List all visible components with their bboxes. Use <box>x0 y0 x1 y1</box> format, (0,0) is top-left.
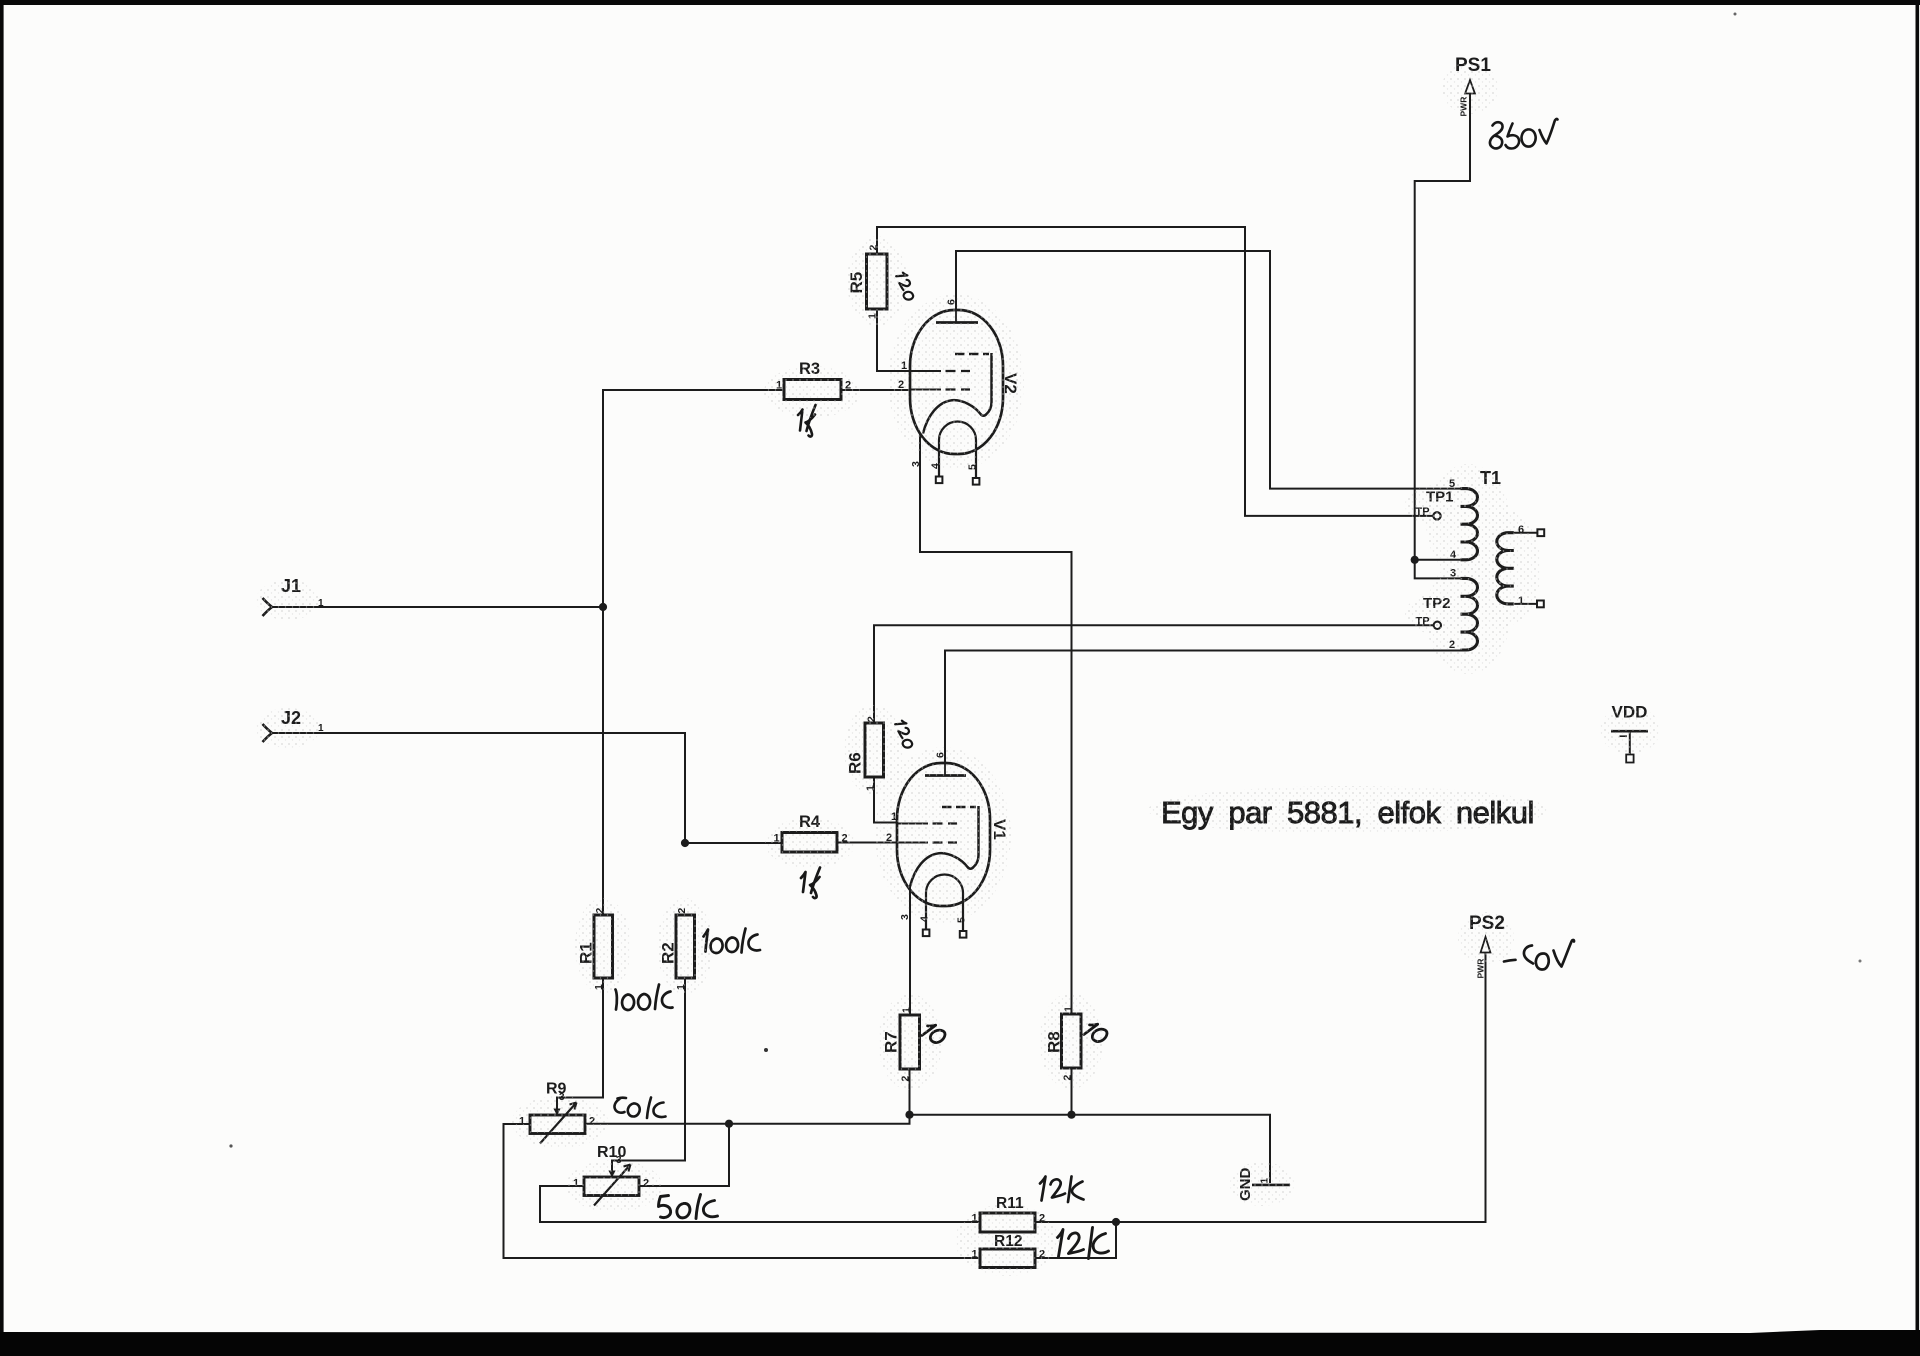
annotation 850V handwritten <box>1490 119 1558 149</box>
wire R2 bottom to R10 wiper <box>612 978 685 1171</box>
wire T1 pin3 <box>1415 560 1461 579</box>
annotation -50V handwritten <box>1504 940 1574 970</box>
junction T1 center tap <box>1411 556 1419 564</box>
junction node A (J1/R1/R3) <box>599 603 607 611</box>
wire J1 to node A <box>272 606 603 608</box>
wire R4 pin2 to V1 grid <box>837 842 898 844</box>
wire PS1 to T1 center-tap junction <box>1415 94 1470 560</box>
wire T1 pin4 <box>1415 559 1461 561</box>
resistor R12 <box>972 1233 1046 1268</box>
annotation 50K handwritten (R10) <box>659 1195 718 1219</box>
svg-text:R10: R10 <box>597 1144 626 1161</box>
annotation 1K handwritten (R3) <box>798 405 816 437</box>
wire R3 pin1 to vertical bus <box>603 390 784 915</box>
wire V1 cathode to R7 <box>909 887 911 1016</box>
wire R12 pin2 to node <box>1035 1222 1116 1258</box>
annotation 120 handwritten (R6) <box>895 720 914 750</box>
resistor R4 <box>774 813 848 852</box>
tube V1 labels <box>886 752 1009 923</box>
junction R11/R12 node <box>1112 1218 1120 1226</box>
test point TP2 <box>1416 595 1451 629</box>
wire V1 plate to T1 pin2 <box>945 651 1461 764</box>
junction node B (J2/R2/R4) <box>681 839 689 847</box>
test point TP1 <box>1416 489 1454 520</box>
connector J1 <box>263 576 325 616</box>
annotation 12K handwritten (R11) <box>1040 1177 1084 1203</box>
resistor R11 <box>972 1195 1046 1232</box>
wire R6 pin2 to TP2 <box>874 625 1434 723</box>
wire R6 pin1 to V1 grid1 <box>874 777 898 823</box>
power symbol PS1 <box>1455 55 1491 117</box>
wire R5 pin1 to V2 grid1 <box>877 309 911 371</box>
transformer T1 <box>1415 489 1545 650</box>
wire R1 bottom to R9 wiper <box>557 978 603 1109</box>
resistor R8 <box>1045 1006 1082 1081</box>
wire T1 pin1 to terminal <box>1514 603 1537 605</box>
resistor R6 <box>846 716 884 791</box>
wire R10 pin2 to node <box>639 1124 729 1186</box>
junction R9/R10 node <box>725 1120 733 1128</box>
tube V1 <box>897 763 990 938</box>
resistor R3 <box>776 360 851 400</box>
T1 labels <box>1449 468 1524 651</box>
annotation 10 handwritten (R8) <box>1083 1020 1109 1046</box>
ground symbol GND <box>1237 1168 1290 1202</box>
annotation 100K handwritten (R1) <box>616 985 673 1010</box>
wire R10 pin1 to R11 pin1 <box>540 1186 980 1222</box>
wire R9 pin2 to cathode bus <box>585 1115 1270 1183</box>
resistor R2 <box>659 908 695 991</box>
annotation 12K handwritten (R12) <box>1058 1228 1109 1259</box>
T1 primary winding pins 5-4 <box>1461 489 1478 560</box>
wire node B to R4 pin1 <box>685 842 782 844</box>
paper specks <box>764 1048 768 1052</box>
junction R8 bus <box>1067 1111 1075 1119</box>
annotation 120 handwritten (R5) <box>896 272 915 302</box>
wire V2 cathode to R8 <box>920 434 1072 1015</box>
wire R5 pin2 to TP1 <box>877 227 1433 516</box>
wire J2 to node B <box>272 733 685 843</box>
resistor R7 <box>882 1007 920 1082</box>
tube V2 labels <box>898 299 1020 470</box>
annotation 100K handwritten (R2) <box>704 929 761 954</box>
potentiometer R9 <box>519 1081 595 1144</box>
wire R7 pin2 to bus <box>909 1069 911 1115</box>
wire R9 pin1 to R12 pin1 <box>504 1124 981 1258</box>
power symbol VDD <box>1611 703 1648 763</box>
resistor R5 <box>847 245 887 320</box>
wire R8 pin2 to bus <box>1071 1068 1073 1115</box>
wire R11 pin2 to PS2 <box>1035 953 1486 1222</box>
annotation 10 handwritten (R7) <box>921 1021 947 1047</box>
wire V2 plate to T1 pin5 <box>956 251 1461 489</box>
T1 secondary winding pins 6-1 <box>1497 533 1514 604</box>
annotation 1K handwritten (R4) <box>801 868 820 899</box>
connector J2 <box>263 708 325 742</box>
power symbol PS2 <box>1469 913 1505 979</box>
wire R3 pin2 to V2 grid <box>841 389 911 391</box>
resistor R1 <box>577 908 613 991</box>
annotation 50K handwritten (R9) <box>615 1098 666 1119</box>
T1 primary winding pins 3-2 <box>1461 578 1478 650</box>
junction R7 bus <box>905 1111 913 1119</box>
potentiometer R10 <box>573 1144 649 1206</box>
wire T1 pin6 to terminal <box>1514 532 1538 534</box>
tube V2 <box>910 310 1003 485</box>
